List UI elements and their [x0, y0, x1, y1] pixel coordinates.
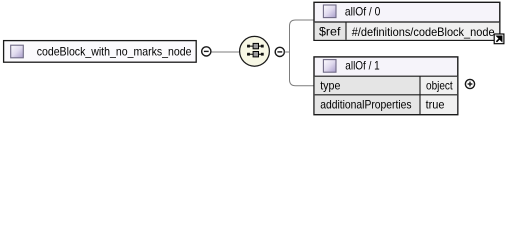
svg-text:true: true: [426, 98, 445, 112]
additionalProperties property name: [320, 98, 411, 112]
wire node to allOf operator: [212, 51, 240, 53]
svg-text:$ref: $ref: [319, 25, 341, 39]
allOf icon row 2: [247, 52, 264, 57]
reference link icon: [494, 34, 504, 44]
type value text: [426, 79, 453, 93]
allOf/0 $ref label cell: [315, 22, 346, 40]
allOf/0 header text: [345, 5, 381, 19]
type property name: [320, 79, 340, 93]
allOf/1 additionalProperties value cell: [315, 76, 457, 114]
allOf icon row 1: [247, 43, 264, 48]
svg-text:allOf / 0: allOf / 0: [345, 5, 381, 19]
svg-text:additionalProperties: additionalProperties: [320, 98, 411, 112]
$ref property name: [319, 25, 341, 39]
subschema box allOf/1: [314, 57, 458, 115]
subschema box allOf/0: [314, 2, 500, 40]
collapse toggle (minus) after node box: [202, 47, 211, 56]
$ref value text: [352, 25, 495, 39]
svg-text:allOf / 1: allOf / 1: [345, 59, 380, 73]
schema object icon (allOf/1): [323, 60, 336, 73]
svg-text:type: type: [320, 79, 340, 93]
allOf/0 $ref value cell: [315, 22, 499, 40]
additionalProperties value text: [426, 98, 445, 112]
allOf/1 header text: [345, 59, 380, 73]
svg-text:object: object: [426, 79, 453, 93]
branch wire trunk to subschemas: [285, 20, 314, 86]
allOf compositor circle: [240, 36, 270, 66]
node codeBlock_with_no_marks_node: [4, 41, 197, 63]
expand toggle (plus) on allOf/1: [465, 79, 474, 88]
collapse toggle (minus) after allOf operator: [275, 47, 284, 56]
allOf/1 additionalProperties label cell: [315, 95, 420, 114]
svg-text:#/definitions/codeBlock_node: #/definitions/codeBlock_node: [352, 25, 495, 39]
svg-text:codeBlock_with_no_marks_node: codeBlock_with_no_marks_node: [37, 44, 192, 58]
schema object icon (allOf/0): [323, 5, 336, 18]
allOf/1 type value cell: [420, 76, 457, 95]
allOf/1 type label cell: [315, 76, 420, 95]
schema object icon (left node): [11, 45, 24, 58]
